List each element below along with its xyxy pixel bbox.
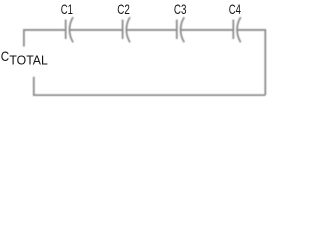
wire: lower-left vertical stub + bottom return wire	[34, 77, 265, 95]
wire: top-left corner + upper-left vertical terminal stub	[24, 30, 66, 47]
wire: C4 to top-right corner, right vertical, down to bottom	[238, 30, 266, 95]
wire: C3 to C4	[181, 29, 233, 31]
label C_TOTAL	[1, 48, 48, 68]
svg-text:C2: C2	[117, 1, 130, 17]
svg-text:C1: C1	[61, 1, 73, 17]
svg-text:TOTAL: TOTAL	[9, 53, 47, 67]
svg-text:C: C	[1, 48, 9, 64]
capacitor C2	[123, 17, 130, 42]
wire: C1 to C2	[70, 29, 123, 31]
capacitor C4	[233, 17, 240, 42]
svg-text:C4: C4	[229, 1, 241, 17]
capacitor C3	[177, 17, 184, 42]
capacitor C1	[66, 17, 73, 42]
wire: C2 to C3	[127, 29, 177, 31]
svg-text:C3: C3	[174, 1, 187, 17]
